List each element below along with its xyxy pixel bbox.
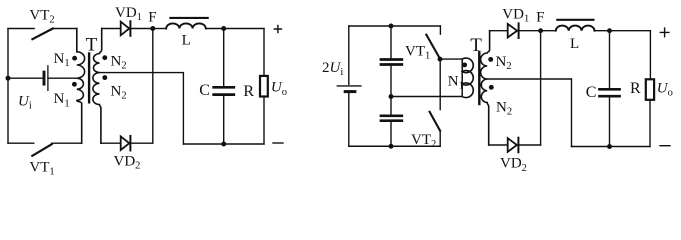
polarity dot N2 lower — [489, 85, 494, 90]
wire node F down to VD2 output — [540, 31, 542, 145]
transistor VT1 (switch symbol, vertical) — [439, 26, 441, 34]
capacitor C bottom lead — [609, 98, 611, 147]
transformer core — [478, 52, 480, 104]
wire secondary top to diode VD1 — [490, 30, 508, 32]
svg-text:F: F — [536, 10, 544, 26]
battery 2Ui bottom lead — [348, 93, 350, 146]
wire R bottom to minus rail — [649, 101, 651, 147]
node junction left rail / battery — [6, 76, 11, 81]
wire battery to primary center tap — [48, 77, 79, 79]
minus sign right output — [660, 145, 670, 147]
wire secondary center tap return — [100, 73, 184, 144]
wire F to inductor L — [153, 28, 166, 30]
transformer T primary winding N1 — [461, 59, 463, 96]
capacitor lower plates — [381, 114, 402, 117]
wire VT1 node to primary top — [440, 58, 462, 60]
capacitor lower bottom lead — [390, 122, 392, 147]
diode VD1 — [508, 24, 517, 38]
plus sign right output — [660, 28, 669, 37]
capacitor C top lead — [223, 29, 225, 87]
polarity dot N2 lower — [102, 75, 107, 80]
node junction VT1/VT2/primary — [438, 57, 443, 62]
transistor VT1 (switch symbol) — [32, 144, 51, 156]
capacitor upper bottom lead — [390, 66, 392, 97]
capacitor C plates — [214, 86, 234, 89]
wire VD2 anode from secondary bottom — [101, 142, 121, 144]
wire R bottom to minus rail — [263, 98, 265, 144]
wire F to inductor L — [541, 30, 556, 32]
node junction top of capacitor branch — [389, 24, 394, 29]
battery 2Ui positive plate (thin long) — [337, 85, 361, 87]
svg-text:L: L — [182, 33, 191, 49]
transformer T secondary winding N2+N2 — [481, 31, 490, 145]
svg-text:R: R — [243, 83, 254, 100]
inductor L winding — [166, 23, 206, 28]
svg-text:T: T — [86, 35, 98, 56]
plus sign left output — [274, 26, 281, 33]
wire link VT1 node down to VT2 contact — [439, 59, 441, 110]
battery 2Ui negative plate (thick short) — [345, 90, 355, 93]
battery Ui wire from rail — [8, 77, 43, 79]
diode VD1 — [121, 22, 130, 36]
capacitor upper plates — [381, 58, 402, 61]
svg-text:T: T — [470, 35, 482, 56]
node junction capacitor midpoint — [389, 94, 394, 99]
wire top left to switch VT2 — [8, 28, 34, 30]
wire down to resistor R — [649, 31, 651, 78]
wire switch VT1 to primary bottom lead — [52, 142, 82, 144]
minus sign left output — [273, 142, 283, 144]
wire node F down to VD2 output — [152, 29, 154, 144]
resistor R box — [646, 79, 654, 100]
svg-text:C: C — [199, 82, 210, 99]
wire secondary center tap return — [487, 79, 571, 147]
wire down to resistor R — [263, 29, 265, 75]
inductor L core bar — [170, 17, 207, 19]
wire top rail battery to VT1 — [349, 25, 441, 27]
battery Ui positive plate (thin long) — [47, 66, 49, 91]
resistor R box — [260, 76, 268, 97]
wire capacitor midpoint to primary bottom — [391, 96, 462, 98]
node junction top of capacitor C — [607, 28, 612, 33]
capacitor C top lead — [609, 31, 611, 88]
wire left rail — [7, 29, 9, 144]
node junction top of capacitor C — [221, 26, 226, 31]
polarity dot N1 upper — [72, 56, 77, 61]
svg-text:F: F — [148, 10, 156, 26]
capacitor C plates — [600, 88, 620, 91]
node junction capacitor bottom — [389, 144, 394, 149]
node F junction dot — [538, 28, 543, 33]
inductor L winding — [556, 26, 595, 31]
wire bottom left to switch VT1 — [8, 142, 34, 144]
polarity dot N1 — [462, 62, 467, 67]
wire secondary top to diode VD1 — [102, 28, 121, 30]
wire VD1 to node F — [130, 28, 153, 30]
svg-text:L: L — [570, 36, 579, 52]
wire minus rail — [572, 146, 651, 148]
node F junction dot — [150, 26, 155, 31]
wire L to + output corner — [206, 28, 264, 30]
svg-text:C: C — [586, 84, 597, 101]
capacitor upper top lead — [390, 26, 392, 58]
transformer T primary winding N1+N1 — [77, 29, 85, 144]
polarity dot N2 upper — [102, 55, 107, 60]
transformer core — [88, 54, 90, 103]
inductor L core bar — [557, 19, 593, 21]
wire VD1 to node F — [519, 30, 541, 32]
node junction bottom of capacitor C — [607, 144, 612, 149]
capacitor lower top lead — [390, 97, 392, 115]
wire VD2 cathode to F vertical — [130, 142, 153, 144]
wire switch VT2 to primary top lead — [53, 28, 77, 30]
wire L to + output corner — [595, 30, 651, 32]
transformer T secondary winding N2+N2 — [93, 29, 102, 144]
battery Ui negative plate (thick short) — [43, 72, 46, 84]
transistor VT2 (switch symbol, vertical) — [430, 112, 441, 131]
capacitor C bottom lead — [223, 96, 225, 144]
diode VD2 — [508, 138, 517, 152]
polarity dot N2 upper — [488, 57, 493, 62]
transistor VT2 (switch symbol) — [32, 29, 52, 40]
svg-text:R: R — [630, 80, 641, 97]
polarity dot N1 lower — [72, 82, 77, 87]
diode VD2 — [121, 136, 130, 150]
wire minus rail — [183, 143, 264, 145]
wire VD2 anode from secondary bottom — [489, 144, 508, 146]
wire bottom rail battery to VT2 — [349, 145, 440, 147]
wire VD2 cathode to F vertical — [518, 144, 540, 146]
node junction bottom of capacitor C — [221, 142, 226, 147]
battery 2Ui top lead — [348, 26, 350, 84]
svg-text:2Ui: 2Ui — [322, 60, 343, 78]
